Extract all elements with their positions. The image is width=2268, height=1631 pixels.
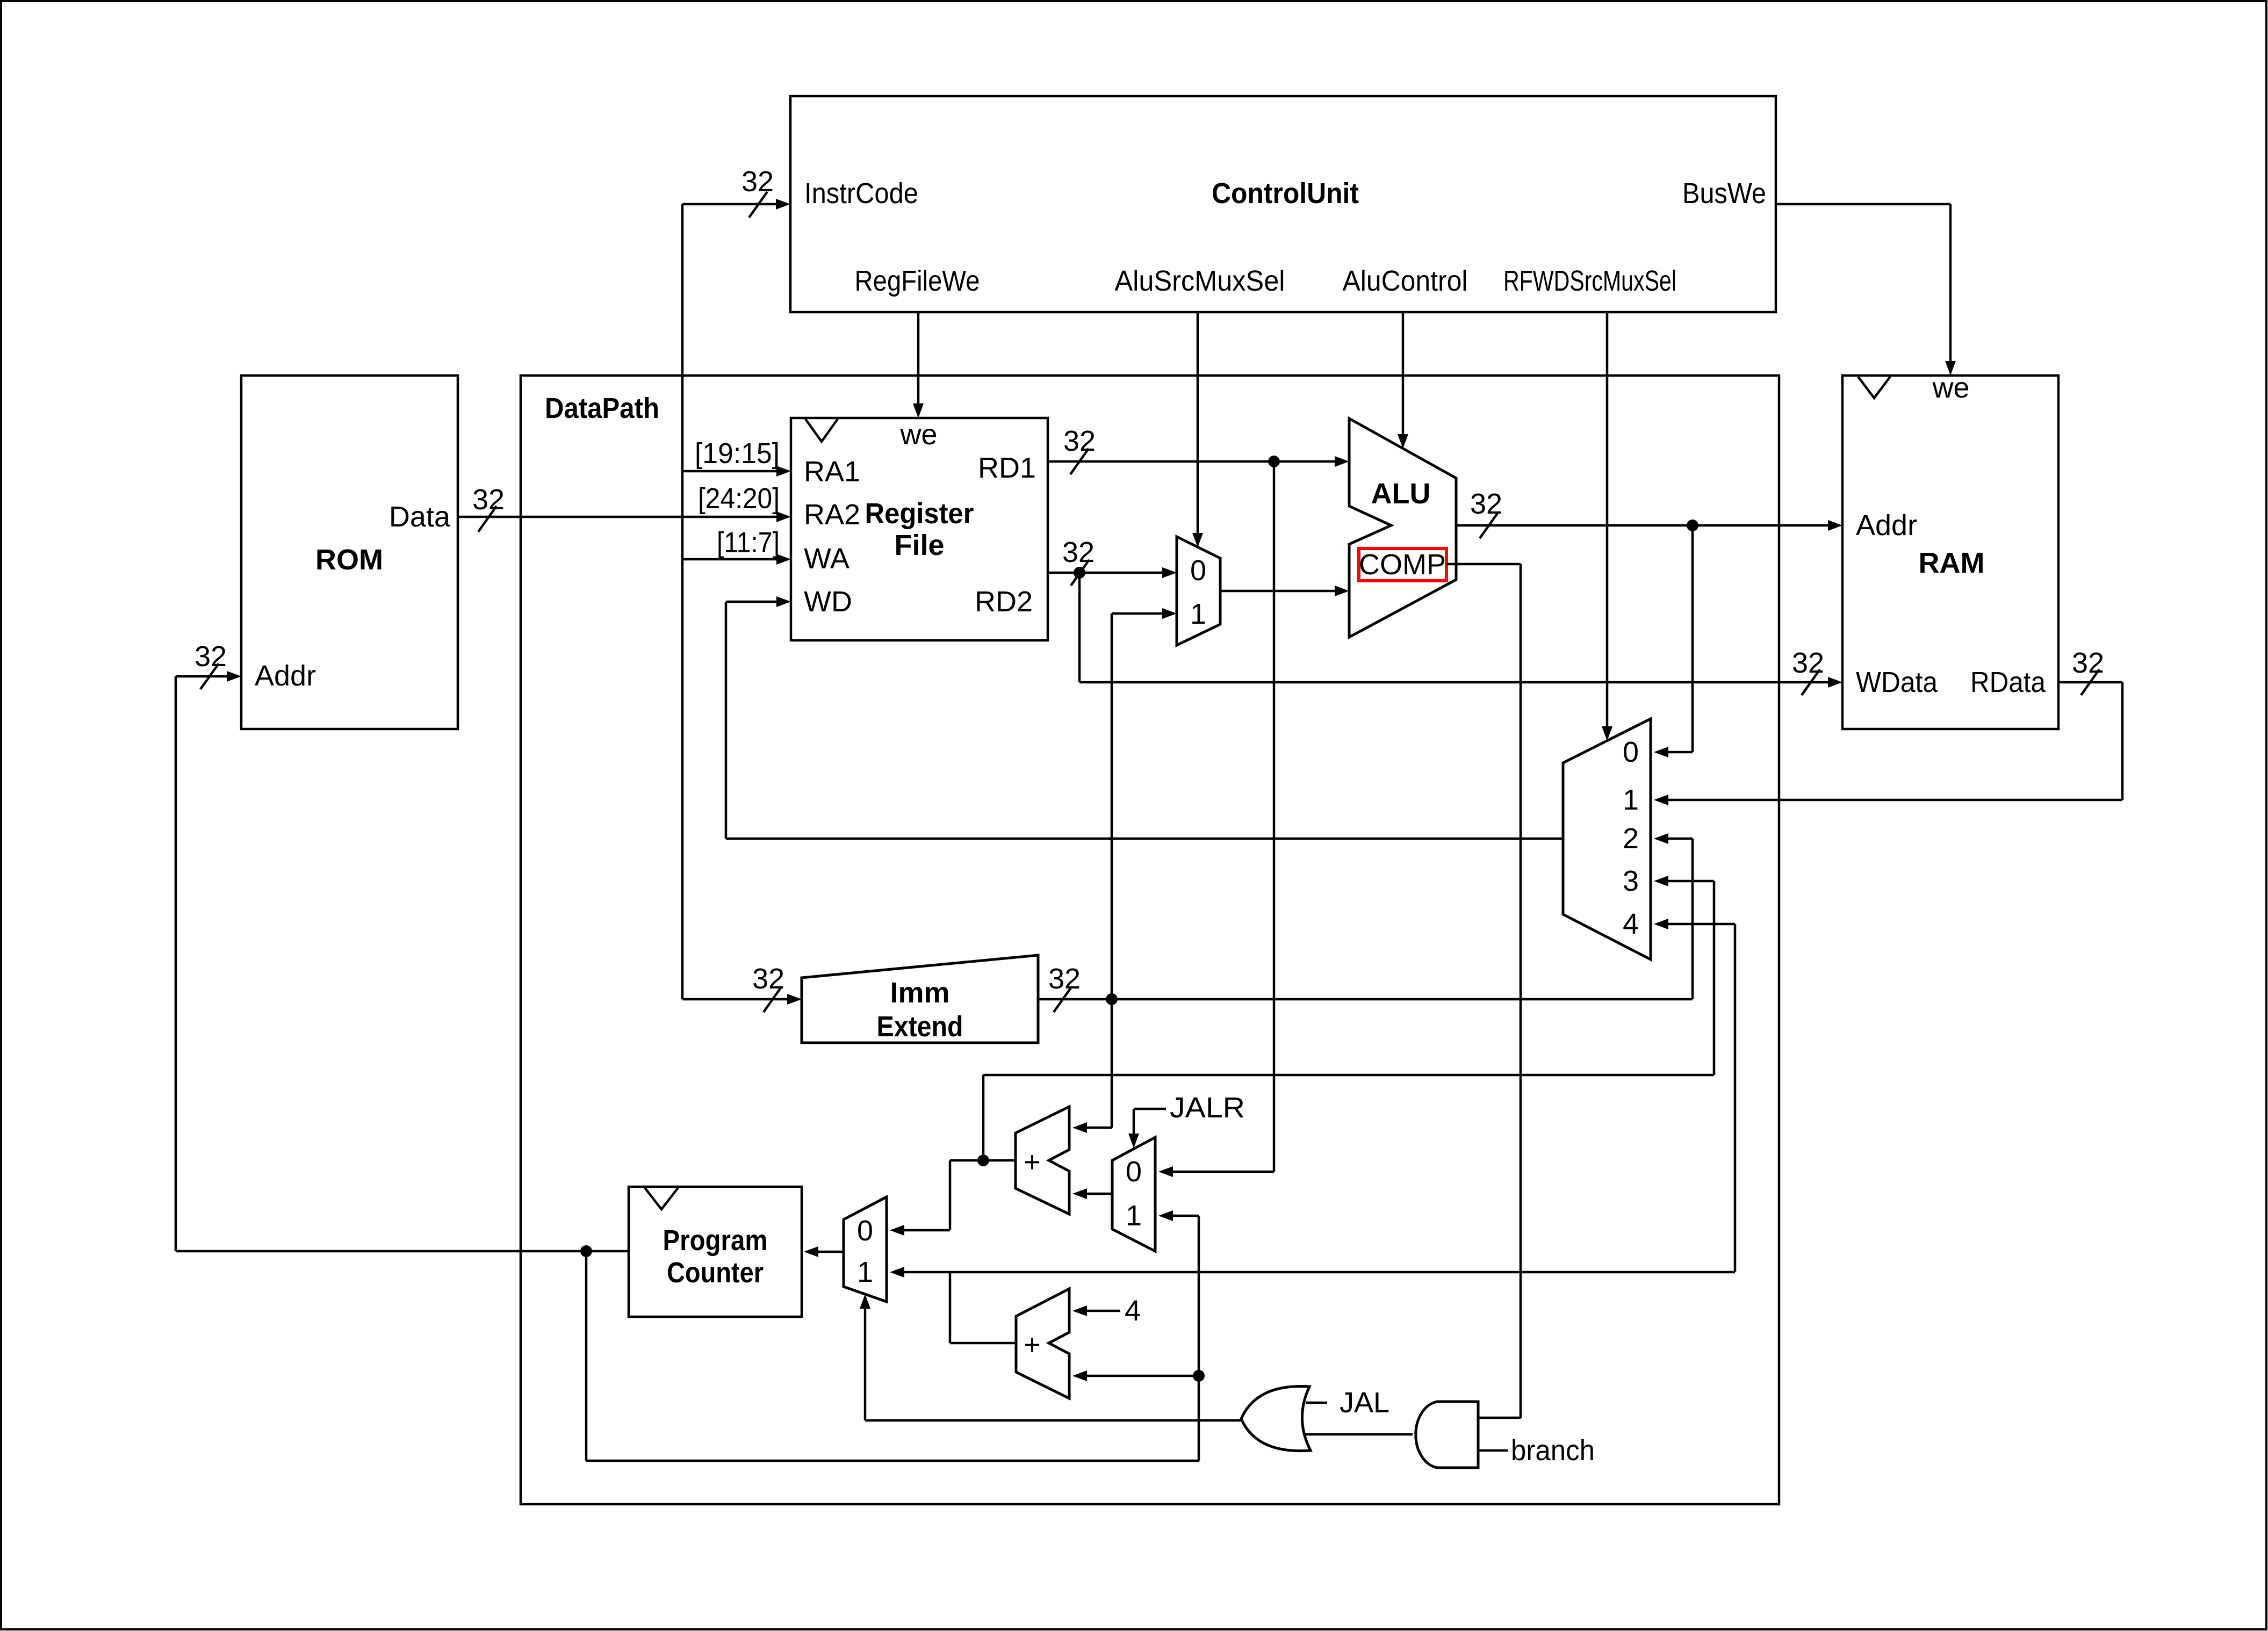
svg-text:1: 1 xyxy=(1623,784,1639,816)
svg-text:32: 32 xyxy=(741,165,774,198)
svg-text:32: 32 xyxy=(195,640,227,673)
svg-text:ControlUnit: ControlUnit xyxy=(1212,177,1359,210)
svg-text:0: 0 xyxy=(1126,1156,1142,1188)
svg-text:+: + xyxy=(1024,1329,1041,1361)
svg-text:+: + xyxy=(1024,1146,1041,1178)
svg-text:Addr: Addr xyxy=(1856,509,1917,542)
svg-text:2: 2 xyxy=(1623,822,1639,855)
svg-text:32: 32 xyxy=(1062,536,1095,568)
svg-text:BusWe: BusWe xyxy=(1682,177,1766,210)
svg-text:Addr: Addr xyxy=(255,660,316,692)
svg-text:1: 1 xyxy=(1126,1200,1142,1232)
svg-text:32: 32 xyxy=(1470,488,1502,520)
svg-text:RegFileWe: RegFileWe xyxy=(855,265,980,297)
svg-text:WData: WData xyxy=(1856,666,1938,698)
svg-text:RA1: RA1 xyxy=(804,456,860,488)
svg-text:ROM: ROM xyxy=(315,544,383,576)
svg-text:0: 0 xyxy=(1190,554,1206,587)
svg-text:we: we xyxy=(1932,372,1969,404)
svg-text:32: 32 xyxy=(1792,647,1824,679)
svg-text:[19:15]: [19:15] xyxy=(695,437,780,470)
svg-text:branch: branch xyxy=(1511,1434,1595,1467)
svg-text:WA: WA xyxy=(804,543,849,575)
svg-text:JALR: JALR xyxy=(1170,1092,1245,1124)
svg-text:RAM: RAM xyxy=(1919,547,1985,579)
svg-text:1: 1 xyxy=(857,1256,873,1288)
svg-text:32: 32 xyxy=(1048,963,1081,995)
svg-text:Imm: Imm xyxy=(890,977,949,1009)
svg-text:4: 4 xyxy=(1623,908,1639,940)
svg-text:4: 4 xyxy=(1125,1295,1141,1327)
svg-text:File: File xyxy=(894,529,944,561)
svg-text:32: 32 xyxy=(2072,647,2104,679)
svg-text:WD: WD xyxy=(804,586,852,618)
svg-text:COMP: COMP xyxy=(1359,549,1446,581)
svg-text:RD1: RD1 xyxy=(978,452,1036,484)
svg-text:32: 32 xyxy=(1063,425,1096,457)
svg-text:RFWDSrcMuxSel: RFWDSrcMuxSel xyxy=(1503,265,1676,297)
svg-text:AluControl: AluControl xyxy=(1343,265,1468,297)
svg-text:1: 1 xyxy=(1190,598,1206,630)
svg-text:Counter: Counter xyxy=(667,1257,764,1289)
svg-text:0: 0 xyxy=(1623,736,1639,768)
svg-text:AluSrcMuxSel: AluSrcMuxSel xyxy=(1115,265,1285,297)
svg-text:[24:20]: [24:20] xyxy=(698,482,780,515)
svg-text:RA2: RA2 xyxy=(804,499,860,531)
svg-text:RD2: RD2 xyxy=(975,586,1033,618)
svg-text:JAL: JAL xyxy=(1340,1387,1389,1419)
svg-text:InstrCode: InstrCode xyxy=(804,177,918,210)
svg-text:Data: Data xyxy=(389,501,451,533)
svg-text:32: 32 xyxy=(752,963,784,995)
svg-text:Extend: Extend xyxy=(877,1011,963,1043)
svg-text:0: 0 xyxy=(857,1215,873,1247)
svg-text:ALU: ALU xyxy=(1371,478,1431,510)
svg-text:RData: RData xyxy=(1970,666,2046,698)
svg-text:DataPath: DataPath xyxy=(545,392,659,424)
svg-text:Register: Register xyxy=(865,497,974,530)
svg-text:[11:7]: [11:7] xyxy=(717,526,780,559)
svg-text:3: 3 xyxy=(1623,865,1639,897)
svg-text:32: 32 xyxy=(472,483,505,516)
svg-text:Program: Program xyxy=(663,1224,768,1257)
svg-text:we: we xyxy=(899,418,937,451)
